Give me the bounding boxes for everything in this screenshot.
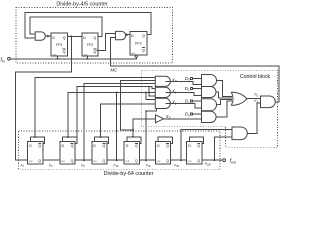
svg-text:D: D [62,144,65,148]
svg-text:CLK: CLK [156,161,161,163]
wire X3 to gate D [164,118,202,120]
svg-text:X0: X0 [171,77,177,83]
bus line L5 from FF_B bracket tap [68,93,155,138]
AND gate B (D1·X1) [202,87,217,98]
junction FF1 CLK [57,58,59,60]
wire AND N output to AND M input [247,103,260,133]
divide-by-64 counter box [18,131,220,169]
flip-flop FF2 [82,33,98,56]
wire X1 to gate B [165,92,201,95]
wire FF1 Q to FF2 D [67,35,82,37]
svg-text:Q: Q [103,159,106,163]
svg-text:D: D [52,36,55,40]
svg-text:CLK: CLK [83,54,88,56]
svg-text:Q: Q [142,34,145,38]
junction on FF_C bracket [100,136,102,138]
svg-text:Q: Q [93,36,96,40]
junction on Q wire D [145,159,147,161]
svg-text:Q: Q [135,144,138,148]
wire Q chain B-C [75,159,92,161]
wire X0 to gate A [165,81,201,84]
svg-text:X2: X2 [171,100,177,106]
bus line L2 from FF_D bracket tap [120,81,155,130]
AND gate G1 (feeds FF1 D) [35,32,45,40]
svg-text:Q: Q [197,144,200,148]
flip-flop FD [124,137,141,164]
junction on Q wire E [180,159,182,161]
wire FF_E Q tap to AND N [181,130,232,161]
svg-text:MC: MC [111,68,118,73]
wire FF2 Qbar to G2 input [96,34,115,51]
svg-text:Q: Q [135,159,138,163]
pin FF3 CLK [135,55,137,57]
junction L5 branch [148,92,150,94]
wire Q chain C-D [107,159,124,161]
junction L5 / C tap [116,92,118,94]
junction on FF_B bracket [67,136,69,138]
svg-text:D: D [126,144,129,148]
divide-by-4/5 counter box [16,8,173,63]
AND gate M (Y0·Y1 = MC) [261,96,276,108]
junction on Q wire C [116,159,118,161]
svg-text:Divide-by-4/5 counter: Divide-by-4/5 counter [56,1,107,7]
junction on Q wire B [83,159,85,161]
junction on FF_A bracket [34,136,36,138]
svg-text:CLK: CLK [29,161,34,163]
junction at X2 drop [145,110,147,112]
svg-text:D3: D3 [185,112,190,118]
svg-text:FF1: FF1 [56,43,62,47]
junction on Q wire F [214,159,216,161]
svg-text:Q: Q [63,36,66,40]
wire G2 output to FF3 D [126,34,130,36]
junction riser/L2 branch [132,129,134,131]
wire FF_F Q tap to AND N [215,137,233,160]
bus line L3 from FF_B Q wire tap [84,84,155,161]
AND gate G2 (feeds FF3 D) [116,31,126,39]
junction FF2 CLK [86,58,88,60]
OR gate Y0 [231,92,246,105]
wire G1 output to FF1 D [45,35,51,37]
svg-text:Q: Q [38,159,41,163]
svg-text:Y0: Y0 [254,92,259,98]
svg-text:FF3: FF3 [135,41,141,45]
wire gate C to OR [217,100,232,105]
AND gate A (D0·X0) [202,75,217,87]
svg-text:Q: Q [166,159,169,163]
flip-flop FB [60,137,77,164]
svg-text:D: D [157,144,160,148]
wire FF_C Q tap joining L5 [116,93,118,161]
svg-text:Control block: Control block [240,74,271,80]
branch L4/L5 to X1 input [149,86,155,96]
wire outer feedback loop FF3 Q to G1 input [25,13,151,38]
buffer X3 [156,115,164,123]
wire Q chain E-F [171,159,187,161]
branch L5 to X2 input [146,93,155,100]
svg-text:CLK: CLK [52,54,57,56]
wire FF_D Q tap to X2 input [146,109,156,161]
svg-text:CLK: CLK [188,161,193,163]
svg-text:CLK: CLK [131,53,136,55]
flip-flop FA [28,137,45,164]
AND gate X2 [155,98,170,108]
bus line L6 from FF_C bracket tap [101,104,156,137]
svg-text:D: D [83,36,86,40]
svg-text:Q: Q [166,144,169,148]
input pin f_in [8,57,11,60]
wire to FF2 CLK [86,56,88,59]
flip-flop FF3 [130,31,147,54]
svg-text:CLK: CLK [125,161,130,163]
bus line L1 from FF_A bracket tap [35,77,155,137]
AND gate C (D2·X2) [202,99,217,111]
svg-text:Q: Q [93,50,96,54]
AND gate X1 [155,87,170,97]
junction FF1 Q branch [70,35,72,37]
wire to FF1 CLK [57,56,59,59]
svg-text:D: D [29,144,32,148]
svg-text:D0: D0 [185,76,190,82]
AND gate D (D3·X3) [202,111,217,122]
svg-text:Q: Q [38,144,41,148]
svg-text:Q: Q [71,159,74,163]
svg-text:Q: Q [103,144,106,148]
wire OR output to AND M [247,98,261,100]
svg-text:FF2: FF2 [87,43,93,47]
svg-text:D: D [131,34,134,38]
wire X2 to gate C [165,103,201,108]
wire FF1 Q down to divide-by-64 clock [16,36,72,160]
wire MC from control block to G2 input [111,38,280,102]
wire inner feedback loop FF2 Q to G1 input [30,17,102,36]
wire gate D to OR [217,101,232,117]
wire f_in clock line [10,57,136,59]
flip-flop FF1 [51,33,67,56]
junction on FF_D bracket [132,136,134,138]
svg-text:D: D [188,144,191,148]
svg-text:X1: X1 [171,89,177,95]
wire FF Q to f_out [202,159,223,161]
bus line L4 from FF_B bracket corner [77,86,156,137]
wire Q chain A-B [43,159,60,161]
output pin f_out [223,159,226,162]
svg-text:Divide-by-64 counter: Divide-by-64 counter [104,171,154,177]
svg-text:Q: Q [71,144,74,148]
svg-text:CLK: CLK [61,161,66,163]
control block box [142,70,278,147]
svg-text:D2: D2 [185,99,190,105]
arrowhead into FF3 D [126,33,129,36]
AND gate N (Y1) [232,127,247,140]
arrowhead into FF1 D [47,35,50,38]
wire FF_D bracket riser to buffer [133,119,155,137]
wire Q chain D-E [139,159,155,161]
flip-flop FC [92,137,109,164]
svg-text:D1: D1 [185,86,190,92]
flip-flop FF [187,137,204,164]
flip-flop FE [155,137,172,164]
wire gate A to OR [217,81,232,97]
svg-text:Q: Q [142,48,145,52]
svg-text:CLK: CLK [93,161,98,163]
svg-text:Q: Q [197,159,200,163]
svg-text:Q: Q [63,50,66,54]
junction L5 branch 2 [145,92,147,94]
AND gate X0 [155,76,170,86]
svg-text:D: D [93,144,96,148]
wire gate B to OR [217,92,232,98]
wire branch to L2 [120,129,133,131]
